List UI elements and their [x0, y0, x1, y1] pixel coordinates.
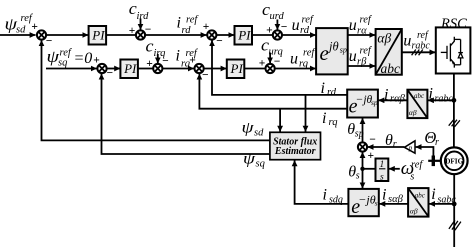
svg-text:αβ: αβ: [377, 31, 391, 46]
svg-text:s: s: [410, 171, 414, 182]
svg-text:rabc: rabc: [412, 41, 431, 52]
svg-text:sd: sd: [16, 24, 26, 35]
svg-text:Estimator: Estimator: [274, 146, 316, 157]
svg-text:i: i: [429, 86, 433, 103]
svg-text:−: −: [46, 36, 53, 48]
svg-text:+: +: [368, 150, 375, 162]
svg-text:+: +: [259, 57, 266, 69]
svg-text:i: i: [382, 187, 386, 204]
svg-text:rq: rq: [299, 59, 308, 70]
svg-text:sp: sp: [340, 46, 347, 55]
svg-text:i: i: [323, 187, 327, 204]
svg-text:ird: ird: [137, 11, 150, 22]
svg-text:ref: ref: [360, 46, 373, 57]
svg-text:u: u: [290, 51, 298, 68]
svg-text:sq: sq: [58, 57, 67, 68]
svg-text:u: u: [349, 17, 357, 34]
svg-text:sαβ: sαβ: [388, 194, 404, 205]
svg-text:−: −: [369, 134, 376, 146]
svg-text:PI: PI: [230, 61, 244, 76]
svg-text:sp: sp: [371, 98, 378, 107]
svg-text:r: r: [435, 137, 439, 148]
svg-text:−: −: [216, 35, 223, 47]
svg-text:RSC: RSC: [440, 16, 467, 32]
svg-text:e: e: [320, 41, 329, 65]
svg-text:DFIG: DFIG: [445, 158, 463, 166]
svg-text:sabc: sabc: [438, 195, 457, 206]
svg-text:jθ: jθ: [327, 40, 339, 54]
svg-text:+: +: [129, 25, 136, 37]
svg-text:i: i: [322, 110, 326, 127]
svg-text:rq: rq: [181, 59, 190, 70]
svg-text:−jθ: −jθ: [356, 94, 373, 106]
svg-text:u: u: [403, 33, 411, 50]
svg-text:abc: abc: [414, 92, 425, 100]
svg-text:=0: =0: [74, 50, 93, 67]
svg-text:rd: rd: [182, 25, 192, 36]
svg-text:−: −: [281, 22, 288, 34]
svg-text:−jθ: −jθ: [358, 192, 375, 206]
svg-text:PI: PI: [91, 27, 105, 42]
svg-text:r: r: [393, 139, 397, 150]
svg-text:ref: ref: [417, 30, 429, 41]
svg-text:urd: urd: [270, 11, 285, 22]
svg-text:+: +: [203, 21, 210, 33]
svg-text:sq: sq: [256, 158, 265, 169]
svg-text:+: +: [31, 21, 38, 33]
svg-text:ψ: ψ: [243, 151, 256, 168]
svg-text:−: −: [202, 70, 209, 82]
svg-text:rd: rd: [300, 25, 310, 36]
svg-text:u: u: [292, 17, 300, 34]
svg-text:rαβ: rαβ: [390, 94, 406, 105]
svg-text:ref: ref: [186, 15, 199, 26]
svg-text:s: s: [380, 173, 384, 183]
svg-text:PI: PI: [237, 27, 251, 42]
svg-text:urq: urq: [269, 47, 283, 58]
svg-text:p: p: [408, 144, 413, 152]
svg-text:ref: ref: [60, 47, 73, 58]
svg-text:ref: ref: [411, 159, 424, 170]
svg-text:ψ: ψ: [242, 119, 255, 136]
svg-text:i: i: [176, 48, 180, 65]
svg-text:rd: rd: [327, 87, 337, 98]
svg-text:rabc: rabc: [435, 94, 454, 105]
svg-text:+: +: [146, 58, 153, 70]
svg-text:+: +: [266, 24, 273, 36]
svg-text:−: −: [274, 56, 281, 68]
svg-text:ref: ref: [303, 48, 316, 59]
svg-text:i: i: [384, 87, 388, 104]
svg-text:abc: abc: [381, 61, 401, 76]
svg-text:s: s: [375, 199, 378, 208]
svg-text:i: i: [177, 15, 181, 32]
svg-text:rα: rα: [357, 26, 367, 37]
svg-text:ref: ref: [302, 15, 315, 26]
svg-text:sd: sd: [254, 127, 264, 138]
svg-text:ref: ref: [360, 15, 373, 26]
svg-text:sp: sp: [355, 128, 364, 139]
svg-text:θ: θ: [385, 132, 393, 149]
svg-text:u: u: [349, 48, 357, 65]
svg-text:αβ: αβ: [409, 108, 417, 117]
svg-text:−: −: [107, 68, 114, 80]
svg-text:i: i: [321, 80, 325, 97]
svg-text:−: −: [145, 24, 152, 36]
svg-text:ref: ref: [186, 48, 199, 59]
svg-text:irq: irq: [154, 48, 166, 59]
svg-text:αβ: αβ: [410, 207, 418, 216]
svg-text:abc: abc: [415, 191, 426, 199]
svg-text:+: +: [93, 55, 100, 67]
svg-text:s: s: [356, 171, 360, 182]
svg-text:i: i: [431, 186, 435, 203]
svg-text:rβ: rβ: [357, 57, 367, 68]
svg-text:sdq: sdq: [329, 195, 343, 206]
svg-text:PI: PI: [123, 61, 137, 76]
svg-text:rq: rq: [329, 117, 338, 128]
